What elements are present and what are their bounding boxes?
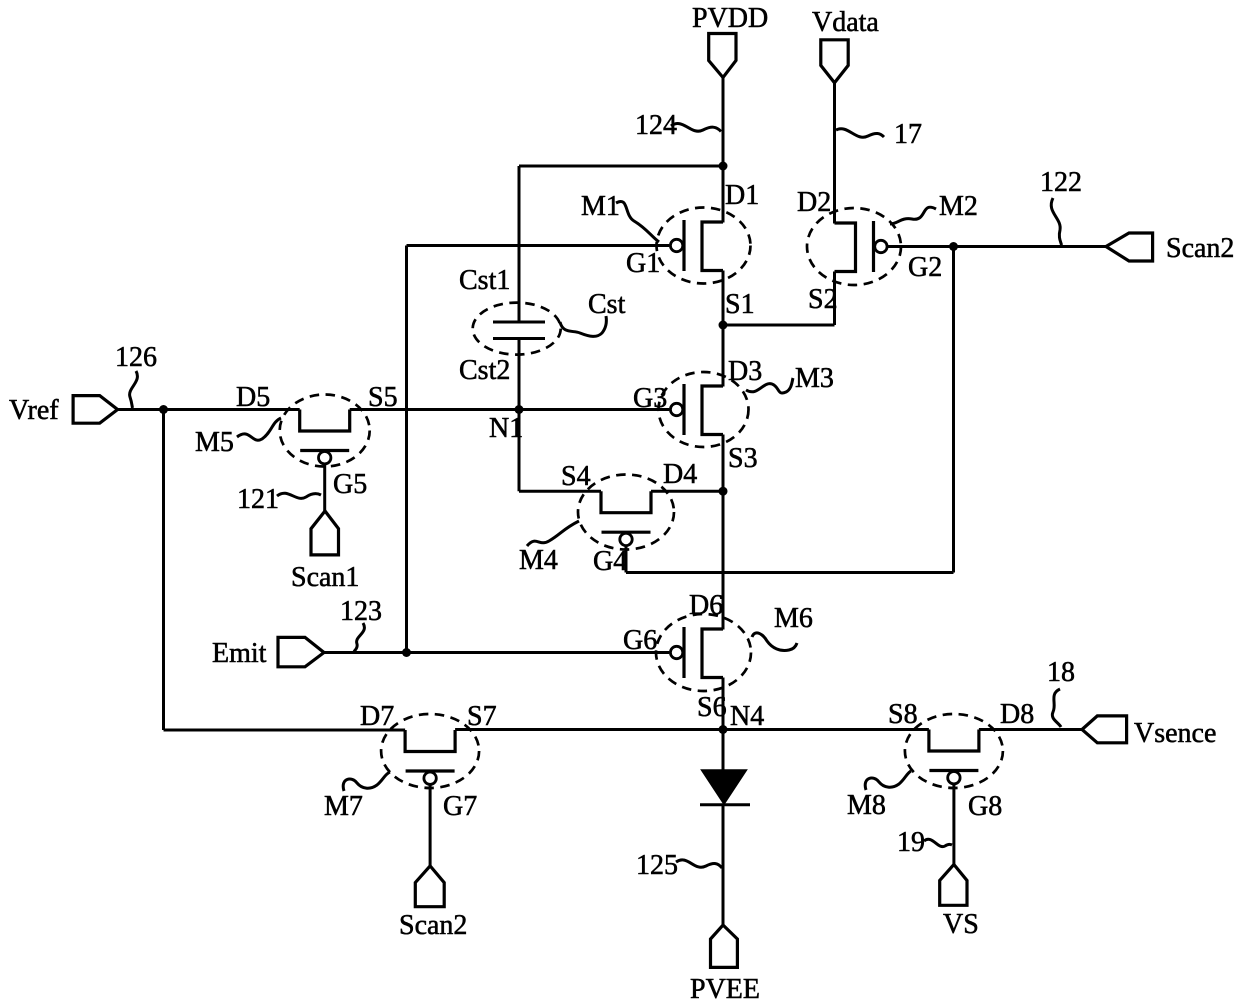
leader M5 xyxy=(237,418,281,440)
pin G6 xyxy=(623,625,657,656)
leader 124 xyxy=(671,124,721,132)
ellipse M7 xyxy=(381,714,479,788)
node N3 junction xyxy=(719,487,728,496)
svg-text:Emit: Emit xyxy=(212,638,267,669)
node Scan2 junction xyxy=(949,242,958,251)
svg-text:Scan1: Scan1 xyxy=(291,562,359,593)
leader 125 xyxy=(676,860,722,868)
wire PVDD to node xyxy=(722,77,725,166)
wire Emit to G6 xyxy=(324,651,669,654)
label M4 xyxy=(519,545,558,576)
node N4 xyxy=(719,725,728,734)
node PVDD junction xyxy=(719,162,728,171)
wire D3 xyxy=(722,325,725,387)
wire S8 xyxy=(723,728,929,731)
leader 19 xyxy=(924,839,952,846)
leader M2 xyxy=(890,207,936,224)
transistor M5 xyxy=(300,410,350,464)
svg-text:121: 121 xyxy=(237,484,279,515)
ellipse Cst xyxy=(473,303,561,355)
wire N4 to diode xyxy=(722,730,725,772)
wire D7 xyxy=(164,729,406,732)
label Vdata xyxy=(812,7,879,38)
wire Vdata D2 xyxy=(833,82,836,224)
wire D1 xyxy=(722,166,725,223)
node label N1 xyxy=(489,413,523,444)
svg-text:Scan2: Scan2 xyxy=(399,910,467,941)
svg-text:M6: M6 xyxy=(774,603,813,634)
svg-text:D2: D2 xyxy=(797,187,831,218)
ellipse M8 xyxy=(905,714,1003,788)
svg-text:G2: G2 xyxy=(908,252,942,283)
label Cst1 xyxy=(459,265,510,296)
wire S1 to S2 xyxy=(723,324,835,327)
svg-text:N1: N1 xyxy=(489,413,523,444)
wire Scan2 down xyxy=(952,247,955,573)
transistor M3 xyxy=(670,384,723,435)
transistor M4 xyxy=(601,491,651,545)
svg-text:Vsence: Vsence xyxy=(1134,718,1216,749)
wire Cst bottom to N1 xyxy=(518,339,521,410)
wire G8 to VS xyxy=(952,784,955,865)
label Vsence xyxy=(1134,718,1216,749)
svg-text:PVEE: PVEE xyxy=(690,974,760,1005)
pin S2 xyxy=(808,284,838,315)
svg-text:M2: M2 xyxy=(939,191,978,222)
label Scan2 right xyxy=(1166,233,1234,264)
leader 18 xyxy=(1052,689,1061,727)
label M8 xyxy=(847,790,886,821)
ellipse M1 xyxy=(657,208,751,284)
node Vref junction xyxy=(159,405,168,414)
wire Scan2 to G4 xyxy=(626,571,954,574)
pin D5 xyxy=(236,382,270,413)
pin D2 xyxy=(797,187,831,218)
wire Cst top xyxy=(518,166,521,322)
svg-text:S2: S2 xyxy=(808,284,838,315)
svg-text:G6: G6 xyxy=(623,625,657,656)
svg-text:S1: S1 xyxy=(725,289,755,320)
transistor M7 xyxy=(405,730,455,784)
pin D7 xyxy=(360,701,394,732)
capacitor Cst plate2 xyxy=(493,337,545,340)
ref 17 xyxy=(894,119,922,150)
terminal Scan1 xyxy=(311,511,339,555)
svg-text:G5: G5 xyxy=(333,469,367,500)
wire top horizontal to Cst xyxy=(519,165,723,168)
node Emit junction xyxy=(402,648,411,657)
pin S1 xyxy=(725,289,755,320)
pin G8 xyxy=(968,791,1002,822)
ref 123 xyxy=(340,596,382,627)
leader 122 xyxy=(1051,198,1061,245)
label M2 xyxy=(939,191,978,222)
pin S4 xyxy=(561,461,591,492)
pin G2 xyxy=(908,252,942,283)
terminal Vref xyxy=(73,396,118,424)
svg-text:M4: M4 xyxy=(519,545,558,576)
leader M3 xyxy=(746,378,793,393)
node S1 xyxy=(719,321,728,330)
wire S7 to N4 xyxy=(455,728,723,731)
node label N4 xyxy=(730,701,764,732)
pin G3 xyxy=(633,383,667,414)
ellipse M2 xyxy=(807,208,901,285)
leader M4 xyxy=(527,521,579,546)
pin G4 xyxy=(593,546,627,577)
svg-text:D8: D8 xyxy=(1000,699,1034,730)
terminal PVDD xyxy=(709,34,736,78)
label Cst xyxy=(588,289,626,320)
pin G1 xyxy=(626,248,660,279)
svg-text:S7: S7 xyxy=(467,701,497,732)
ref 18 xyxy=(1047,657,1075,688)
pin D1 xyxy=(725,180,759,211)
svg-text:17: 17 xyxy=(894,119,922,150)
terminal Emit xyxy=(278,637,324,666)
wire S3 xyxy=(722,435,725,492)
svg-text:D4: D4 xyxy=(663,459,697,490)
svg-text:M3: M3 xyxy=(795,363,834,394)
transistor M8 xyxy=(929,730,979,784)
label VS xyxy=(943,909,979,940)
label Scan1 xyxy=(291,562,359,593)
svg-text:Cst2: Cst2 xyxy=(459,355,510,386)
label PVDD xyxy=(692,3,768,34)
svg-text:Scan2: Scan2 xyxy=(1166,233,1234,264)
svg-text:D5: D5 xyxy=(236,382,270,413)
label M3 xyxy=(795,363,834,394)
label M6 xyxy=(774,603,813,634)
svg-text:Vdata: Vdata xyxy=(812,7,879,38)
terminal Vsence xyxy=(1082,716,1127,743)
ellipse M5 xyxy=(280,395,370,467)
pin G5 xyxy=(333,469,367,500)
label Vref xyxy=(9,395,59,426)
leader M8 xyxy=(865,771,911,790)
pin G7 xyxy=(443,791,477,822)
pin S6 xyxy=(697,692,727,723)
svg-text:D3: D3 xyxy=(728,356,762,387)
transistor M1 xyxy=(670,220,723,271)
svg-text:G4: G4 xyxy=(593,546,627,577)
pin S8 xyxy=(888,699,918,730)
ellipse M6 xyxy=(656,614,751,691)
svg-text:G3: G3 xyxy=(633,383,667,414)
svg-text:VS: VS xyxy=(943,909,979,940)
svg-text:S3: S3 xyxy=(728,443,758,474)
svg-text:Vref: Vref xyxy=(9,395,59,426)
svg-text:D1: D1 xyxy=(725,180,759,211)
label M1 xyxy=(581,191,620,222)
svg-text:Cst: Cst xyxy=(588,289,626,320)
leader 17 xyxy=(836,129,884,137)
wire N1 down xyxy=(518,410,521,492)
node N1 xyxy=(515,405,524,414)
ref 19 xyxy=(897,827,925,858)
svg-text:126: 126 xyxy=(115,342,157,373)
ellipse M4 xyxy=(578,475,674,550)
wire Vref xyxy=(118,408,300,411)
transistor M6 xyxy=(670,627,723,678)
svg-text:N4: N4 xyxy=(730,701,764,732)
terminal Scan2 right xyxy=(1106,233,1153,261)
svg-text:19: 19 xyxy=(897,827,925,858)
ref 121 xyxy=(237,484,279,515)
pin D8 xyxy=(1000,699,1034,730)
svg-text:S8: S8 xyxy=(888,699,918,730)
diode LED anode triangle xyxy=(702,770,746,803)
svg-text:Cst1: Cst1 xyxy=(459,265,510,296)
svg-text:18: 18 xyxy=(1047,657,1075,688)
svg-text:PVDD: PVDD xyxy=(692,3,768,34)
terminal Scan2 bottom xyxy=(415,866,444,907)
transistor M2 xyxy=(835,221,888,272)
svg-text:G8: G8 xyxy=(968,791,1002,822)
ellipse M3 xyxy=(659,372,749,447)
label Emit xyxy=(212,638,267,669)
svg-text:G7: G7 xyxy=(443,791,477,822)
terminal VS xyxy=(940,865,967,906)
svg-text:123: 123 xyxy=(340,596,382,627)
leader M1 xyxy=(616,201,659,242)
label PVEE xyxy=(690,974,760,1005)
svg-text:G1: G1 xyxy=(626,248,660,279)
wire G2 to Scan2 xyxy=(887,245,1106,248)
leader 121 xyxy=(277,493,321,498)
wire G7 to Scan2 xyxy=(429,784,432,866)
wire S1 xyxy=(722,271,725,326)
svg-text:S5: S5 xyxy=(368,382,398,413)
svg-text:D6: D6 xyxy=(689,590,723,621)
leader Cst xyxy=(560,316,606,336)
wire diode to PVEE xyxy=(722,804,725,925)
diode LED cathode bar xyxy=(700,803,750,806)
leader M6 xyxy=(752,633,797,651)
svg-text:M8: M8 xyxy=(847,790,886,821)
terminal Vdata xyxy=(821,40,848,83)
label M7 xyxy=(324,791,363,822)
svg-text:M7: M7 xyxy=(324,791,363,822)
leader M7 xyxy=(343,772,390,791)
wire G4 stub xyxy=(625,546,628,573)
pin D4 xyxy=(663,459,697,490)
svg-text:122: 122 xyxy=(1040,167,1082,198)
pin D3 xyxy=(728,356,762,387)
pin S7 xyxy=(467,701,497,732)
pin D6 xyxy=(689,590,723,621)
ref 125 xyxy=(636,850,678,881)
ref 126 xyxy=(115,342,157,373)
wire S6 xyxy=(722,678,725,730)
terminal PVEE xyxy=(711,925,738,967)
wire Vref down xyxy=(162,410,165,731)
capacitor Cst plate1 xyxy=(493,321,545,324)
label Scan2 bottom xyxy=(399,910,467,941)
pin S3 xyxy=(728,443,758,474)
svg-text:D7: D7 xyxy=(360,701,394,732)
wire M1 gate to Emit xyxy=(405,246,408,653)
label Cst2 xyxy=(459,355,510,386)
leader 123 xyxy=(354,623,364,652)
wire D6 xyxy=(722,491,725,629)
svg-text:S6: S6 xyxy=(697,692,727,723)
wire G1 xyxy=(407,244,670,247)
wire S5 to G3 node N1 xyxy=(350,408,670,411)
wire S2 xyxy=(833,272,836,326)
wire G5 to Scan1 xyxy=(323,464,326,511)
wire S4 xyxy=(519,490,601,493)
pin S5 xyxy=(368,382,398,413)
wire D4 xyxy=(651,490,723,493)
label M5 xyxy=(195,427,234,458)
svg-text:M1: M1 xyxy=(581,191,620,222)
leader 126 xyxy=(130,371,138,408)
svg-text:M5: M5 xyxy=(195,427,234,458)
ref 124 xyxy=(635,110,677,141)
svg-text:S4: S4 xyxy=(561,461,591,492)
ref 122 xyxy=(1040,167,1082,198)
wire D8 xyxy=(979,728,1082,731)
svg-text:125: 125 xyxy=(636,850,678,881)
